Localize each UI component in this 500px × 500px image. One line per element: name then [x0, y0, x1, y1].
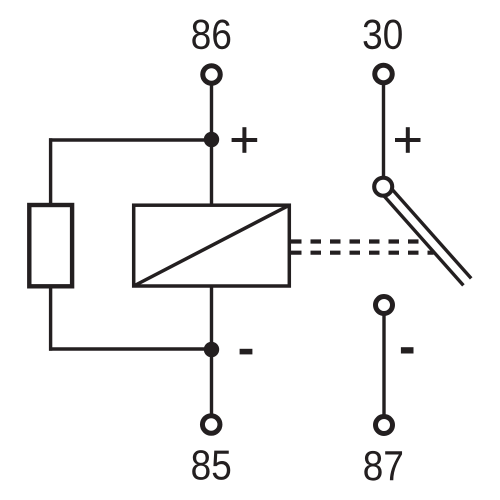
minus sign right — [401, 347, 414, 353]
wire resistor bottom to bottom rail — [49, 288, 52, 351]
relay coil K1 box — [134, 205, 290, 286]
label 87 — [364, 451, 402, 481]
wire coil bottom to terminal 85 — [210, 286, 213, 414]
wire bottom horizontal to junction — [49, 347, 212, 350]
fixed contact circle — [376, 297, 393, 314]
minus sign left — [240, 349, 253, 355]
relay coil diagonal — [134, 205, 290, 286]
dashed actuation line upper — [291, 239, 426, 243]
wire left vertical down to resistor — [49, 138, 52, 204]
switch arm lower line — [380, 191, 464, 285]
switch pivot circle — [374, 178, 392, 196]
switch arm upper line — [387, 184, 471, 278]
junction node bottom (-) — [204, 342, 219, 357]
terminal circle 30 — [375, 65, 393, 83]
plus sign left — [232, 127, 258, 153]
resistor R — [29, 205, 72, 286]
wire from terminal 86 down to coil top — [210, 85, 213, 205]
terminal circle 85 — [202, 416, 220, 434]
label 30 — [364, 19, 402, 49]
plus sign right — [395, 127, 421, 153]
dashed actuation line lower — [291, 251, 434, 255]
label 85 — [192, 450, 230, 480]
terminal circle 86 — [203, 66, 221, 84]
wire fixed contact to terminal 87 — [382, 315, 385, 415]
junction node top (+) — [204, 132, 219, 147]
wire top horizontal to resistor branch — [49, 138, 212, 141]
terminal circle 87 — [376, 417, 393, 434]
label 86 — [192, 19, 230, 49]
wire from terminal 30 down to switch pivot — [382, 85, 385, 180]
